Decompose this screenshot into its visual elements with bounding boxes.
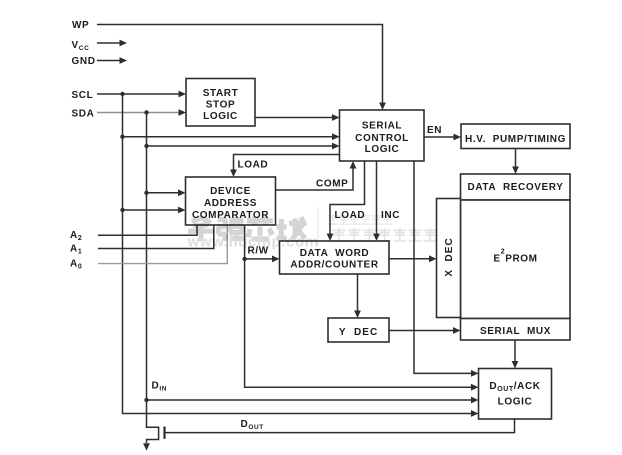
svg-text:ADDR/COUNTER: ADDR/COUNTER: [290, 260, 378, 271]
svg-text:A1: A1: [70, 243, 82, 255]
svg-text:VCC: VCC: [72, 40, 90, 52]
svg-text:LOGIC: LOGIC: [498, 397, 533, 408]
svg-text:Y DEC: Y DEC: [339, 327, 378, 338]
svg-text:H.V. PUMP/TIMING: H.V. PUMP/TIMING: [465, 134, 566, 145]
svg-text:LOAD: LOAD: [238, 160, 269, 171]
svg-text:EN: EN: [427, 125, 442, 136]
svg-text:A2: A2: [70, 230, 82, 242]
svg-text:A0: A0: [70, 258, 82, 270]
svg-text:SERIAL MUX: SERIAL MUX: [480, 326, 551, 337]
svg-text:DOUT/ACK: DOUT/ACK: [489, 381, 540, 393]
svg-text:CONTROL: CONTROL: [355, 133, 409, 144]
svg-text:STOP: STOP: [206, 99, 235, 110]
svg-text:DEVICE: DEVICE: [210, 186, 251, 197]
svg-text:www.hqchip.com: www.hqchip.com: [187, 234, 319, 251]
svg-text:SCL: SCL: [72, 90, 94, 101]
svg-text:SERIAL: SERIAL: [362, 120, 402, 131]
svg-text:GND: GND: [72, 56, 96, 67]
svg-text:X DEC: X DEC: [444, 237, 455, 276]
svg-text:DATA RECOVERY: DATA RECOVERY: [468, 182, 564, 193]
svg-text:DOUT: DOUT: [241, 419, 264, 431]
svg-text:LOGIC: LOGIC: [365, 144, 400, 155]
svg-text:ADDRESS: ADDRESS: [204, 198, 257, 209]
svg-text:SDA: SDA: [72, 108, 95, 119]
svg-text:START: START: [203, 88, 239, 99]
svg-text:DIN: DIN: [152, 380, 168, 392]
svg-text:LOGIC: LOGIC: [203, 111, 238, 122]
svg-text:WP: WP: [72, 20, 89, 31]
svg-text:COMP: COMP: [316, 179, 348, 190]
